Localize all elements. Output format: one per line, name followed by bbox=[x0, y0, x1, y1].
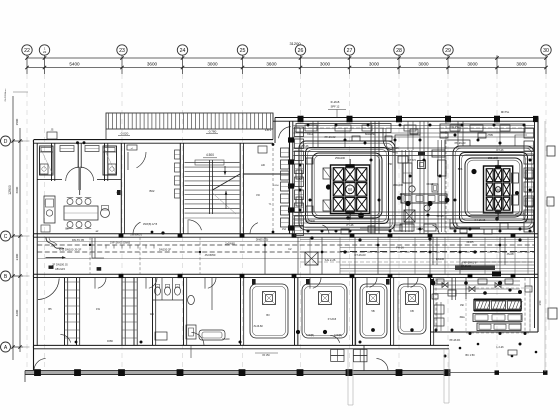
svg-text:KT-26-06: KT-26-06 bbox=[461, 265, 472, 268]
svg-text:KT-26-05: KT-26-05 bbox=[475, 218, 486, 222]
svg-text:M: M bbox=[496, 187, 500, 192]
svg-text:3000: 3000 bbox=[418, 61, 429, 66]
svg-text:31200: 31200 bbox=[289, 41, 301, 46]
svg-text:22: 22 bbox=[43, 50, 47, 54]
svg-text:24: 24 bbox=[180, 48, 186, 54]
svg-text:2400: 2400 bbox=[15, 253, 19, 260]
svg-text:5400: 5400 bbox=[69, 61, 80, 66]
svg-text:JS: JS bbox=[51, 129, 54, 132]
svg-text:25F: 25F bbox=[388, 162, 393, 166]
svg-text:2F DN100 JS: 2F DN100 JS bbox=[52, 263, 68, 267]
svg-text:DN PSL: DN PSL bbox=[451, 126, 460, 129]
svg-text:250x200: 250x200 bbox=[335, 156, 346, 160]
svg-text:JS DN50: JS DN50 bbox=[205, 253, 216, 257]
svg-text:B26: B26 bbox=[458, 167, 463, 171]
svg-text:-0.020: -0.020 bbox=[120, 132, 129, 136]
svg-text:JXF-26-05 DN65: JXF-26-05 DN65 bbox=[110, 241, 131, 245]
svg-text:27: 27 bbox=[347, 48, 353, 54]
svg-text:1500: 1500 bbox=[15, 118, 19, 125]
svg-text:3000: 3000 bbox=[320, 61, 331, 66]
svg-text:DN-TC 05: DN-TC 05 bbox=[72, 238, 85, 242]
svg-text:PF-26-03: PF-26-03 bbox=[455, 141, 466, 145]
svg-text:GL/D3S8mm: GL/D3S8mm bbox=[5, 89, 7, 102]
svg-text:300x200: 300x200 bbox=[393, 183, 404, 187]
svg-text:PY-26: PY-26 bbox=[347, 223, 355, 227]
svg-text:12900: 12900 bbox=[8, 185, 12, 195]
svg-text:1:50: 1:50 bbox=[539, 300, 542, 305]
svg-text:DN40: DN40 bbox=[427, 182, 434, 186]
svg-text:3000: 3000 bbox=[207, 61, 218, 66]
svg-text:PF-26-02: PF-26-02 bbox=[325, 135, 336, 139]
svg-text:SF-26: SF-26 bbox=[391, 146, 399, 150]
svg-text:26: 26 bbox=[298, 48, 304, 54]
svg-text:BC 1:50: BC 1:50 bbox=[465, 354, 475, 357]
svg-text:1W: 1W bbox=[96, 307, 100, 311]
svg-text:DN100: DN100 bbox=[222, 339, 230, 341]
svg-text:JT05: JT05 bbox=[487, 133, 493, 137]
svg-text:AB 2x15: AB 2x15 bbox=[55, 267, 65, 271]
svg-text:XD-2: XD-2 bbox=[307, 132, 313, 136]
svg-text:IF-26-B: IF-26-B bbox=[331, 100, 340, 104]
svg-text:29: 29 bbox=[445, 48, 451, 54]
svg-text:6000: 6000 bbox=[15, 186, 19, 193]
svg-text:FH-26: FH-26 bbox=[396, 246, 404, 250]
svg-text:4.500: 4.500 bbox=[206, 153, 214, 157]
svg-text:250x200: 250x200 bbox=[488, 156, 499, 160]
svg-text:28: 28 bbox=[396, 48, 402, 54]
svg-text:KB: KB bbox=[410, 309, 414, 313]
svg-text:DN65: DN65 bbox=[467, 240, 474, 244]
svg-text:0.00(B): 0.00(B) bbox=[306, 334, 314, 337]
svg-text:DN65 (T5): DN65 (T5) bbox=[256, 238, 269, 242]
svg-text:b5 150: b5 150 bbox=[262, 354, 270, 357]
svg-text:23: 23 bbox=[119, 48, 125, 54]
svg-text:B3: B3 bbox=[266, 313, 270, 317]
svg-text:KT-26: KT-26 bbox=[497, 148, 504, 152]
svg-text:DN50: DN50 bbox=[107, 341, 114, 343]
svg-text:C: C bbox=[4, 234, 8, 240]
svg-text:30: 30 bbox=[543, 48, 549, 54]
svg-text:DN65: DN65 bbox=[417, 227, 424, 231]
svg-text:250x120: 250x120 bbox=[515, 212, 526, 216]
svg-text:SPF 12: SPF 12 bbox=[331, 105, 340, 109]
svg-text:302a: 302a bbox=[459, 317, 465, 319]
svg-text:1600: 1600 bbox=[525, 177, 531, 181]
svg-text:AD: AD bbox=[261, 163, 265, 167]
svg-text:-0.780: -0.780 bbox=[208, 130, 217, 134]
svg-text:150X(B) G/Y5: 150X(B) G/Y5 bbox=[143, 224, 158, 226]
svg-text:KT-26-03: KT-26-03 bbox=[354, 253, 366, 257]
svg-text:3600: 3600 bbox=[147, 61, 158, 66]
svg-text:1W.WR(7): 1W.WR(7) bbox=[130, 233, 142, 236]
svg-text:PF-26 FK: PF-26 FK bbox=[450, 339, 461, 342]
svg-text:JS-26-B2: JS-26-B2 bbox=[253, 326, 263, 328]
svg-text:KT-26: KT-26 bbox=[302, 144, 309, 148]
svg-text:JS-1: JS-1 bbox=[399, 192, 405, 196]
svg-text:DN50: DN50 bbox=[273, 185, 279, 187]
svg-text:SJL 2-26: SJL 2-26 bbox=[325, 258, 336, 262]
svg-text:D: D bbox=[4, 139, 8, 145]
svg-text:2xDN65: 2xDN65 bbox=[225, 242, 235, 246]
svg-text:320x200: 320x200 bbox=[305, 219, 316, 223]
svg-text:B1: B1 bbox=[65, 227, 69, 231]
svg-text:4200: 4200 bbox=[15, 309, 19, 316]
svg-text:3000: 3000 bbox=[369, 61, 380, 66]
svg-text:DN150 2F: DN150 2F bbox=[159, 248, 172, 252]
svg-text:M: M bbox=[348, 187, 352, 192]
svg-text:KT-26-B: KT-26-B bbox=[328, 319, 337, 321]
svg-text:1-B S: 1-B S bbox=[265, 128, 272, 132]
svg-text:L 2-26: L 2-26 bbox=[497, 346, 505, 349]
svg-text:3600: 3600 bbox=[266, 61, 277, 66]
svg-text:DF PSL: DF PSL bbox=[501, 111, 510, 114]
svg-text:22: 22 bbox=[24, 48, 30, 54]
svg-text:WC: WC bbox=[150, 312, 154, 316]
svg-text:800x250: 800x250 bbox=[365, 132, 376, 136]
svg-text:KT-6.5: KT-6.5 bbox=[408, 158, 416, 162]
svg-text:b2: b2 bbox=[289, 247, 292, 251]
svg-text:B02: B02 bbox=[150, 189, 155, 193]
svg-text:JS-08: JS-08 bbox=[506, 252, 514, 256]
svg-text:25: 25 bbox=[240, 48, 246, 54]
svg-text:5B: 5B bbox=[371, 309, 374, 313]
svg-text:3000: 3000 bbox=[516, 61, 527, 66]
svg-text:B5: B5 bbox=[48, 307, 52, 311]
svg-text:XF-26: XF-26 bbox=[436, 214, 444, 218]
svg-text:3000: 3000 bbox=[467, 61, 478, 66]
svg-text:JSF: JSF bbox=[460, 305, 465, 307]
